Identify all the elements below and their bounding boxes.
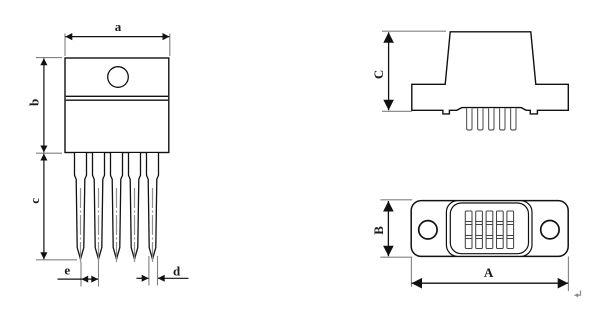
left mounting hole bbox=[419, 221, 437, 239]
svg-text:C: C bbox=[371, 70, 386, 79]
pin 2 bbox=[93, 153, 105, 263]
dimension d line with arrows bbox=[137, 275, 189, 282]
center block outer outline bbox=[446, 201, 532, 257]
return mark bbox=[574, 291, 581, 298]
contact column 3 bbox=[486, 211, 493, 249]
dimension C extension line bottom bbox=[382, 110, 412, 112]
pin 4 bbox=[129, 153, 141, 263]
pin 3 bbox=[111, 153, 123, 263]
pin 1 bbox=[75, 153, 87, 263]
groove line lower bbox=[66, 99, 168, 101]
dimension A line with arrows bbox=[412, 278, 569, 289]
svg-text:b: b bbox=[26, 99, 41, 106]
side view pin 1 bbox=[467, 108, 472, 130]
dimension d extension line left bbox=[148, 256, 150, 286]
dimension c bottom extension line bbox=[36, 259, 77, 261]
dimension B extension line bottom bbox=[380, 256, 412, 258]
contact column 4 bbox=[497, 211, 504, 249]
side view pin 4 bbox=[500, 108, 505, 130]
side view pin 3 bbox=[489, 108, 494, 130]
dimension B line with arrows bbox=[383, 201, 394, 256]
svg-text:a: a bbox=[115, 19, 122, 34]
dimension A extension line left bbox=[410, 257, 412, 287]
dimension C extension line top bbox=[382, 30, 446, 32]
svg-text:B: B bbox=[371, 226, 386, 235]
groove line upper bbox=[66, 95, 168, 97]
outer body rounded rect bbox=[411, 201, 568, 257]
svg-text:e: e bbox=[64, 263, 70, 278]
center block inner outline bbox=[450, 203, 528, 254]
pin 5 bbox=[147, 153, 159, 263]
side view pin 5 bbox=[511, 108, 516, 130]
dimension b line with arrows bbox=[40, 58, 47, 152]
dimension e extension line right bbox=[98, 262, 100, 287]
contact column 2 bbox=[476, 211, 483, 249]
contact column 5 bbox=[507, 211, 514, 249]
body outline bbox=[65, 58, 169, 153]
svg-text:c: c bbox=[27, 198, 42, 204]
right mounting hole bbox=[541, 221, 559, 239]
contact column 1 bbox=[465, 211, 472, 249]
dimension d extension line right bbox=[157, 256, 159, 286]
dimension b extension line top bbox=[36, 57, 62, 59]
svg-text:d: d bbox=[173, 264, 181, 279]
dimension C line with arrows bbox=[383, 32, 394, 110]
dimension a extension line right bbox=[169, 34, 171, 57]
dimension b/c shared extension line bbox=[36, 152, 62, 154]
dimension B extension line top bbox=[380, 199, 412, 201]
dimension a line with arrows bbox=[65, 33, 169, 40]
dimension e extension line left bbox=[80, 262, 82, 287]
dimension A extension line right bbox=[567, 257, 569, 292]
side view pin 2 bbox=[478, 108, 483, 130]
dimension a extension line left bbox=[64, 34, 66, 57]
svg-text:A: A bbox=[484, 265, 494, 280]
side view outline bbox=[412, 32, 569, 114]
dimension e line with arrows bbox=[58, 276, 99, 283]
dimension c line with arrows bbox=[40, 154, 47, 260]
mounting hole bbox=[108, 67, 129, 88]
